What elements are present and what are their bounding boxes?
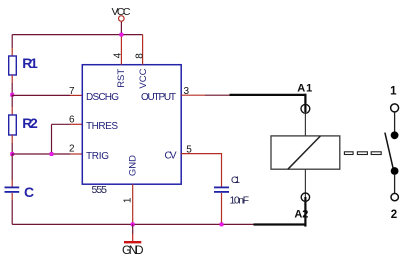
svg-text:1: 1 bbox=[390, 85, 397, 97]
pin stub R2 top bbox=[11, 107, 13, 115]
wire THRES net (pin 6) bbox=[52, 123, 71, 125]
node junction C1/ground rail bbox=[220, 222, 224, 226]
pin stub 2 bbox=[70, 153, 82, 155]
wire lower contact to terminal 2 bbox=[394, 175, 396, 194]
node junction THRES/TRIG bbox=[50, 152, 54, 156]
svg-text:C1: C1 bbox=[231, 175, 240, 186]
node junction R1/R2/pin7 bbox=[10, 93, 14, 97]
svg-text:10nF: 10nF bbox=[230, 195, 250, 207]
svg-text:2: 2 bbox=[391, 209, 397, 221]
capacitor C1 plate bottom bbox=[214, 191, 229, 193]
pin stub R1 bottom bbox=[11, 75, 13, 83]
relay linkage dash 2 bbox=[357, 152, 367, 155]
pin stub C bottom bbox=[11, 193, 13, 200]
VCC terminal circle bbox=[119, 16, 125, 22]
svg-text:THRES: THRES bbox=[86, 121, 118, 132]
relay coil diagonal bbox=[288, 136, 321, 169]
node junction VCC rail bbox=[119, 33, 123, 37]
svg-text:4: 4 bbox=[113, 52, 124, 58]
op-amp U1 555 timer body bbox=[82, 65, 181, 185]
wire junction to R2 bbox=[11, 95, 13, 107]
resistor R1 bbox=[9, 56, 17, 75]
svg-text:C: C bbox=[24, 184, 34, 200]
pin stub 4 (RST) bbox=[120, 35, 122, 65]
resistor R2 bbox=[9, 115, 17, 135]
wire DSCHG net (pin 7) bbox=[12, 94, 70, 96]
switch blade bbox=[385, 133, 394, 170]
pin stub R2 bottom bbox=[11, 135, 13, 143]
relay linkage dash 3 bbox=[371, 152, 381, 155]
svg-text:VCC: VCC bbox=[112, 6, 131, 18]
relay linkage dash 1 bbox=[344, 152, 353, 155]
wire THRES vertical tie bbox=[51, 124, 53, 154]
svg-text:RST: RST bbox=[116, 69, 127, 88]
wire C bottom to ground rail bbox=[11, 200, 13, 224]
svg-text:R1: R1 bbox=[22, 55, 38, 71]
svg-text:A1: A1 bbox=[297, 83, 312, 95]
ground symbol bar bbox=[124, 241, 141, 243]
svg-text:VCC: VCC bbox=[138, 68, 149, 88]
svg-text:3: 3 bbox=[184, 86, 190, 97]
pin stub 5 (CV) bbox=[181, 154, 221, 187]
svg-text:OUTPUT: OUTPUT bbox=[141, 92, 176, 103]
pin stub 7 bbox=[70, 94, 82, 96]
pin stub 6 bbox=[70, 123, 82, 125]
svg-text:CV: CV bbox=[165, 151, 177, 162]
wire GND stub bbox=[132, 224, 134, 234]
svg-text:TRIG: TRIG bbox=[86, 151, 109, 162]
terminal circle 2 bbox=[391, 193, 398, 200]
svg-text:7: 7 bbox=[69, 86, 75, 97]
svg-text:1: 1 bbox=[123, 197, 134, 203]
wire contact 1 to upper contact bbox=[394, 112, 396, 132]
terminal circle A1 bbox=[301, 104, 310, 113]
lower contact dot bbox=[391, 167, 399, 175]
pin stub 1 (GND) bbox=[132, 184, 134, 224]
svg-text:8: 8 bbox=[134, 53, 145, 59]
svg-text:6: 6 bbox=[69, 115, 75, 126]
wire OUTPUT net black segment to A1 bbox=[230, 94, 307, 96]
svg-text:DSCHG: DSCHG bbox=[86, 92, 119, 103]
svg-text:555: 555 bbox=[92, 184, 108, 196]
node junction R2/C/TRIG bbox=[10, 152, 14, 156]
svg-text:5: 5 bbox=[186, 144, 192, 155]
wire A1 vertical drop bbox=[304, 94, 306, 112]
wire left rail top (to R1) bbox=[11, 35, 13, 48]
wire R2 bottom to junction bbox=[11, 143, 13, 154]
pin stub 8 (VCC) bbox=[142, 35, 144, 65]
svg-text:GND: GND bbox=[122, 243, 144, 256]
wire OUTPUT net maroon segment bbox=[205, 94, 230, 96]
pin stub 3 (OUTPUT) bbox=[181, 94, 205, 96]
terminal circle 1 bbox=[391, 104, 399, 112]
relay coil pin A1 bbox=[304, 112, 306, 136]
wire A2 vertical bbox=[304, 197, 306, 227]
capacitor C plate bottom bbox=[5, 191, 20, 193]
svg-text:A2: A2 bbox=[294, 209, 308, 221]
wire TRIG net (pin 2) bbox=[12, 153, 70, 155]
svg-text:GND: GND bbox=[128, 155, 139, 176]
upper contact dot bbox=[391, 131, 399, 139]
wire VCC top rail bbox=[12, 34, 142, 36]
pin stub R1 top bbox=[11, 48, 13, 56]
wire R1 bottom to junction bbox=[11, 83, 13, 95]
svg-text:R2: R2 bbox=[22, 115, 38, 131]
capacitor C plate top bbox=[5, 187, 20, 189]
relay K1 coil box bbox=[271, 136, 340, 169]
wire junction to C bbox=[11, 154, 13, 180]
pin stub C top bbox=[11, 180, 13, 187]
node junction GND rail bbox=[131, 222, 135, 226]
svg-text:2: 2 bbox=[69, 143, 75, 154]
wire ground rail bbox=[12, 223, 253, 225]
wire VCC stub from terminal circle bbox=[120, 22, 122, 35]
terminal circle A2 bbox=[301, 193, 309, 201]
capacitor C1 plate top bbox=[214, 187, 229, 189]
pin stub C1 bottom bbox=[221, 193, 223, 224]
wire A2 net black bottom segment bbox=[254, 223, 307, 225]
relay coil pin A2 bbox=[304, 169, 306, 197]
